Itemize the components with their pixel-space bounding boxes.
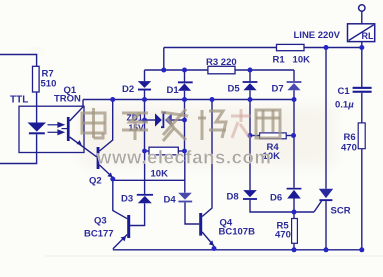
wire R7 to LED (36, 92, 38, 123)
opto arrow 1 (48, 123, 68, 135)
svg-text:Q2: Q2 (89, 176, 102, 187)
diode D8 (243, 136, 257, 200)
transistor Q2 bar (97, 147, 100, 169)
svg-text:D6: D6 (270, 193, 282, 204)
svg-text:470: 470 (275, 230, 291, 241)
wire TTL return bottom (0, 134, 37, 163)
wire B right part (235, 69, 294, 71)
Q3 emitter (113, 235, 127, 249)
resistor R7 (33, 66, 40, 92)
svg-text:D3: D3 (121, 194, 133, 205)
svg-text:RL: RL (362, 31, 374, 41)
transistor Q4 bar (199, 213, 202, 236)
wire rail x=144.5 lower (144, 120, 146, 151)
Q4 collector (202, 100, 212, 217)
wire rail x=250 upper (249, 100, 251, 136)
svg-text:R1 10K: R1 10K (273, 55, 311, 66)
Q2 collector (100, 100, 113, 152)
diode D5 (243, 70, 258, 100)
resistor 10K (R2) (149, 147, 178, 155)
diode D7 (287, 70, 302, 100)
Q4 emitter arrow (209, 240, 214, 246)
resistor R3 (208, 66, 235, 74)
wire ZD1 row right (172, 119, 185, 121)
wire rail x=184.5 lower (184, 120, 186, 151)
svg-text:LINE 220V: LINE 220V (294, 30, 341, 41)
wire B rail y=70 (145, 69, 208, 71)
phototransistor Q1 bar (67, 117, 70, 141)
Q3 emitter arrow (121, 236, 126, 241)
wire rail x=294 upper (293, 100, 295, 136)
svg-text:0.1µ: 0.1µ (335, 100, 354, 111)
wire R4 row right (286, 135, 293, 137)
wire TTL input top (0, 55, 37, 67)
wire R4 row left (250, 135, 260, 137)
svg-text:D7: D7 (272, 84, 284, 95)
wire bottom rail (113, 249, 363, 251)
watermark chinese characters (82, 108, 280, 141)
thyristor SCR (319, 48, 333, 250)
Q4 emitter (202, 232, 214, 246)
svg-text:TTL: TTL (10, 95, 28, 106)
resistor R5 (292, 212, 298, 250)
opto base stub (62, 128, 68, 130)
svg-text:BC107B: BC107B (219, 227, 256, 238)
wire ZD1 row (145, 119, 156, 121)
Q1 emitter arrow (77, 140, 82, 145)
Q1 emitter (70, 137, 97, 157)
svg-text:R3 220: R3 220 (206, 57, 237, 68)
svg-text:10K: 10K (151, 169, 169, 180)
diode D1 (178, 70, 193, 100)
wire vertical 163.8 (163, 48, 165, 71)
resistor R4 (260, 133, 287, 139)
svg-text:D5: D5 (228, 84, 241, 95)
diode D2 (138, 70, 151, 100)
diode D4 (178, 151, 192, 202)
wire Q2 emitter to Q3 (113, 179, 127, 219)
diode D6 (287, 136, 302, 213)
wire 10K row right (178, 150, 184, 152)
svg-text:C1: C1 (338, 86, 351, 97)
wire Q2 emitter row y=180.3 (113, 179, 185, 181)
transistor Q3 bar (127, 215, 130, 238)
svg-text:TRON: TRON (54, 94, 81, 105)
capacitor C1 (353, 48, 372, 123)
optocoupler U1 box (19, 106, 84, 152)
zener ZD1 (155, 113, 172, 127)
svg-text:510: 510 (41, 79, 57, 90)
svg-text:www.elecfans.com: www.elecfans.com (96, 147, 271, 168)
wire SCR gate diagonal (314, 201, 322, 212)
svg-text:BC177: BC177 (84, 229, 114, 240)
svg-text:Q3: Q3 (94, 216, 107, 227)
svg-text:470: 470 (341, 143, 357, 154)
opto arrow 2 (48, 131, 60, 133)
wire Q4 base from D4 (185, 202, 199, 224)
wire Q3 base from D3 (130, 203, 145, 225)
svg-text:SCR: SCR (331, 206, 351, 217)
wire gate row y=212 (250, 200, 314, 212)
resistor R6 (358, 123, 365, 250)
wire rail x=144.5 mid (144, 100, 146, 121)
wire A top rail y=47.5 (164, 47, 277, 49)
Q1 collector (70, 100, 83, 122)
svg-text:D4: D4 (164, 195, 177, 206)
svg-text:R6: R6 (344, 132, 356, 143)
resistor R1 (277, 44, 305, 50)
wire A right part (304, 47, 362, 49)
relay RL (348, 5, 375, 48)
opto LED D-led (28, 123, 47, 135)
wire rail x=184.5 mid (184, 100, 186, 121)
Q2 emitter (100, 165, 113, 178)
svg-text:D2: D2 (122, 84, 134, 95)
wire 10K row left (145, 150, 150, 152)
svg-text:D8: D8 (227, 192, 239, 203)
svg-text:D1: D1 (167, 85, 180, 96)
wire C rail y=99.5 (83, 99, 294, 101)
diode D3 (137, 151, 153, 203)
Q2 emitter arrow (107, 172, 112, 177)
